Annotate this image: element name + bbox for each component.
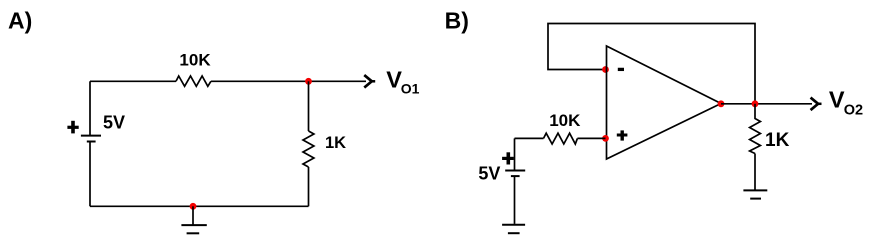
ground B2 short bar [750, 198, 761, 200]
op-amp plus sign [617, 134, 628, 137]
battery V2 plus sign [502, 157, 514, 160]
svg-text:V: V [829, 86, 845, 112]
noninverting input node dot [602, 135, 609, 142]
output node dot (op-amp apex) [718, 100, 725, 107]
wire top-left segment A [90, 80, 176, 82]
svg-text:5V: 5V [478, 164, 500, 184]
ground B2 long bar [743, 189, 767, 191]
svg-text:1K: 1K [325, 134, 346, 152]
resistor R4 1K (load of B) [750, 104, 761, 154]
battery V2 short plate [511, 175, 520, 177]
arrowhead VO2 [812, 98, 819, 109]
resistor R1 10K (series, top of A) [176, 76, 211, 86]
battery V2 long plate [505, 170, 525, 172]
ground A short bar [187, 232, 200, 234]
op-amp minus sign [618, 68, 624, 71]
output junction dot [752, 100, 759, 107]
svg-text:B): B) [445, 8, 469, 34]
ground stub A [192, 206, 194, 224]
ground A long bar [181, 224, 206, 226]
wire bottom A [90, 205, 309, 207]
resistor R3 10K (series, input of B) [544, 133, 578, 144]
wire right vertical A (bottom) [308, 167, 310, 206]
wire battery B to ground [514, 177, 516, 224]
battery V1 5V plus sign [67, 126, 78, 129]
wire right vertical A (top) [308, 81, 310, 131]
svg-text:A): A) [8, 8, 32, 34]
inverting input node dot [602, 66, 609, 73]
svg-text:10K: 10K [549, 111, 581, 130]
ground node dot A [190, 203, 197, 210]
arrowhead VO1 [365, 76, 372, 87]
wire corner down to battery B [514, 138, 516, 169]
svg-text:1K: 1K [765, 130, 790, 151]
ground B1 short bar [508, 232, 520, 234]
op-amp U1 triangle [607, 46, 722, 159]
node VO1 junction dot [305, 78, 312, 85]
wire from battery corner to R3 [515, 137, 544, 139]
wire op-amp output to arrow [721, 103, 812, 105]
wire left vertical A (bottom) [89, 142, 91, 206]
wire left vertical A (top) [89, 81, 91, 135]
wire R4 to ground [754, 154, 756, 190]
wire top-right segment A to arrow [211, 80, 366, 82]
wire from R3 to + input [577, 137, 605, 139]
feedback wire loop B [548, 24, 755, 105]
svg-text:10K: 10K [179, 50, 211, 69]
svg-text:5V: 5V [103, 112, 125, 132]
ground B1 long bar [502, 224, 525, 226]
battery V1 short plate [87, 141, 96, 143]
battery V1 long plate [81, 135, 101, 137]
resistor R2 1K (shunt, right of A) [303, 131, 314, 167]
svg-text:O1: O1 [401, 80, 420, 96]
svg-text:O2: O2 [844, 103, 863, 119]
